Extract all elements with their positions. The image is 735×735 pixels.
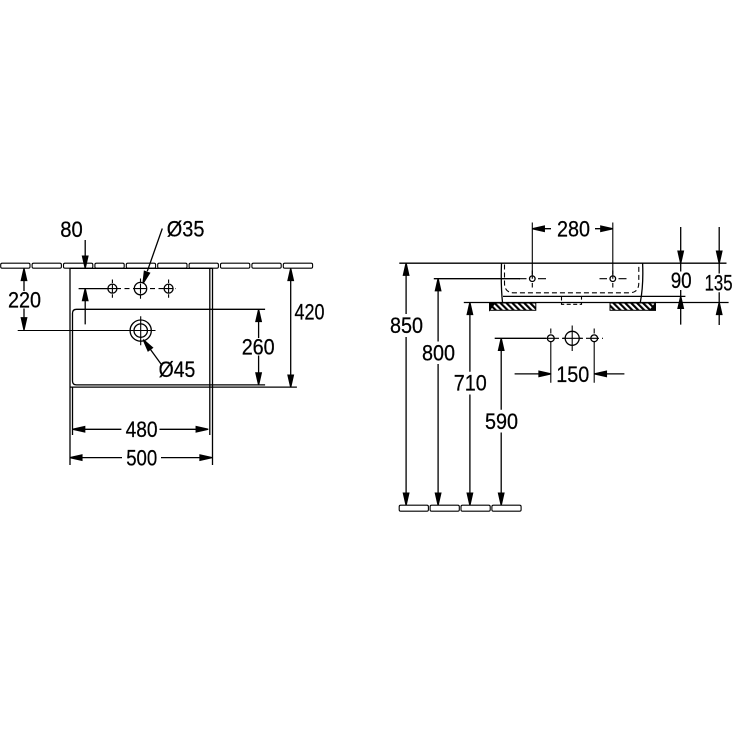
svg-text:850: 850 [390, 313, 423, 338]
svg-text:480: 480 [126, 417, 158, 442]
svg-text:420: 420 [295, 299, 325, 324]
svg-text:Ø45: Ø45 [159, 357, 196, 382]
svg-text:280: 280 [557, 217, 590, 242]
svg-text:590: 590 [485, 409, 518, 434]
svg-text:80: 80 [60, 217, 83, 242]
svg-text:800: 800 [422, 340, 455, 365]
svg-text:500: 500 [126, 445, 157, 470]
svg-text:220: 220 [8, 288, 41, 313]
svg-text:135: 135 [705, 270, 733, 295]
svg-text:90: 90 [671, 268, 692, 293]
svg-text:Ø35: Ø35 [167, 216, 205, 241]
svg-text:150: 150 [556, 362, 589, 387]
svg-text:710: 710 [454, 371, 487, 396]
svg-text:260: 260 [242, 334, 275, 359]
